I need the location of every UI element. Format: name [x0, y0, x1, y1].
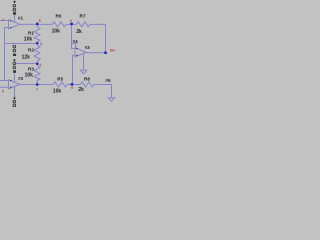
svg-text:R5: R5	[57, 76, 63, 81]
wire op2 V+ stub	[14, 74, 16, 82]
node dot divider A	[36, 42, 38, 44]
svg-text:2k: 2k	[76, 29, 82, 35]
svg-text:10k: 10k	[52, 28, 61, 34]
wire bottom rail middle	[67, 84, 80, 86]
arrow port bottom right	[108, 98, 114, 102]
plus	[13, 59, 16, 62]
plus	[13, 97, 16, 100]
node dot divider B	[36, 63, 38, 65]
wire bottom rail left	[20, 84, 53, 86]
svg-text:3: 3	[40, 42, 42, 46]
circle	[13, 66, 16, 69]
wire op2 top input	[0, 80, 9, 82]
junction dots	[36, 23, 107, 86]
battery bar V3	[13, 70, 16, 73]
op-amp U2	[9, 80, 20, 89]
source stack A above U1	[13, 1, 16, 12]
resistor R3	[34, 65, 40, 80]
svg-text:R7: R7	[80, 13, 86, 18]
U1 minus input mark	[10, 19, 12, 22]
wire op1 output rail	[20, 23, 52, 25]
wire between R6 and R7	[66, 23, 76, 25]
op-amp U1	[9, 20, 20, 29]
red node numbers	[2, 18, 115, 94]
resistor R2	[34, 45, 40, 62]
node dot bottom rail mid	[71, 83, 74, 86]
U1 plus input mark	[10, 26, 12, 29]
svg-text:12k: 12k	[22, 55, 31, 61]
node dot top rail mid	[70, 23, 73, 25]
svg-text:R6: R6	[56, 13, 62, 18]
circle	[13, 100, 16, 103]
wire op1 V+ stub	[14, 15, 16, 22]
wire divider stub top	[36, 24, 38, 26]
wire op2 lower input	[0, 86, 9, 88]
U2 plus input mark	[10, 86, 12, 89]
svg-text:R8: R8	[84, 76, 90, 81]
svg-text:#6: #6	[105, 78, 111, 83]
U3 plus input mark	[76, 54, 78, 57]
wire source tap to node B	[15, 63, 36, 65]
op-amp U3	[75, 48, 87, 57]
svg-text:6: 6	[70, 19, 72, 23]
source stack C below U2	[13, 97, 16, 107]
wire op3 noninv input from bottom rail	[73, 55, 75, 84]
svg-text:2k: 2k	[78, 87, 84, 93]
svg-text:10k: 10k	[53, 89, 62, 95]
U3 minus input mark	[76, 47, 78, 50]
arrow port under op3	[80, 70, 86, 74]
svg-text:R1: R1	[28, 30, 34, 35]
wire op3 V- down	[83, 54, 85, 70]
resistor R7	[76, 22, 90, 27]
circle	[13, 9, 16, 12]
svg-text:#4: #4	[73, 39, 79, 44]
svg-text:4: 4	[39, 63, 41, 67]
svg-text:5: 5	[39, 19, 41, 23]
circle	[13, 49, 16, 52]
svg-text:8m: 8m	[110, 48, 115, 52]
background	[0, 0, 120, 108]
svg-text:R2: R2	[28, 47, 34, 52]
svg-text:10k: 10k	[25, 72, 34, 78]
node dot output C	[104, 52, 107, 54]
svg-text:6: 6	[2, 90, 4, 94]
wire op1 lower input + left rail down	[5, 28, 9, 81]
svg-text:#2: #2	[18, 76, 24, 81]
wire bottom rail right corner down	[94, 85, 112, 98]
U2 minus input mark	[10, 79, 12, 82]
wire R7 to right corner down to node C	[90, 24, 106, 52]
resistor R8	[80, 82, 94, 87]
svg-text:7: 7	[36, 88, 38, 92]
plus	[13, 1, 16, 4]
svg-text:10k: 10k	[24, 36, 33, 42]
dark labels	[18, 13, 111, 94]
wire divider stub bottom	[36, 81, 38, 85]
circle	[13, 104, 16, 107]
battery bar V2	[13, 54, 16, 56]
svg-text:R3: R3	[28, 66, 34, 71]
resistor R6	[52, 22, 66, 27]
circle	[13, 45, 16, 48]
svg-text:#3: #3	[85, 45, 91, 50]
wire op3 inv input	[72, 24, 75, 48]
svg-text:#1: #1	[18, 16, 24, 21]
wire op3 V+ jog	[72, 44, 76, 49]
resistor R1	[34, 27, 40, 42]
node dot on output rail at divider	[36, 23, 39, 25]
resistor R5	[53, 82, 67, 87]
wire op2 V- stub	[14, 87, 16, 97]
circle	[13, 5, 16, 8]
circle	[13, 62, 16, 65]
node dot divider bottom	[36, 83, 38, 85]
wire op1 top input	[0, 20, 9, 22]
source stack B upper	[13, 45, 16, 52]
svg-text:9: 9	[71, 86, 73, 90]
wire feedback to divider node A	[4, 43, 37, 45]
wire op3 output to node C	[86, 52, 105, 54]
svg-text:2: 2	[2, 18, 4, 22]
source stack B lower	[13, 59, 16, 69]
battery bar V1	[13, 12, 16, 14]
